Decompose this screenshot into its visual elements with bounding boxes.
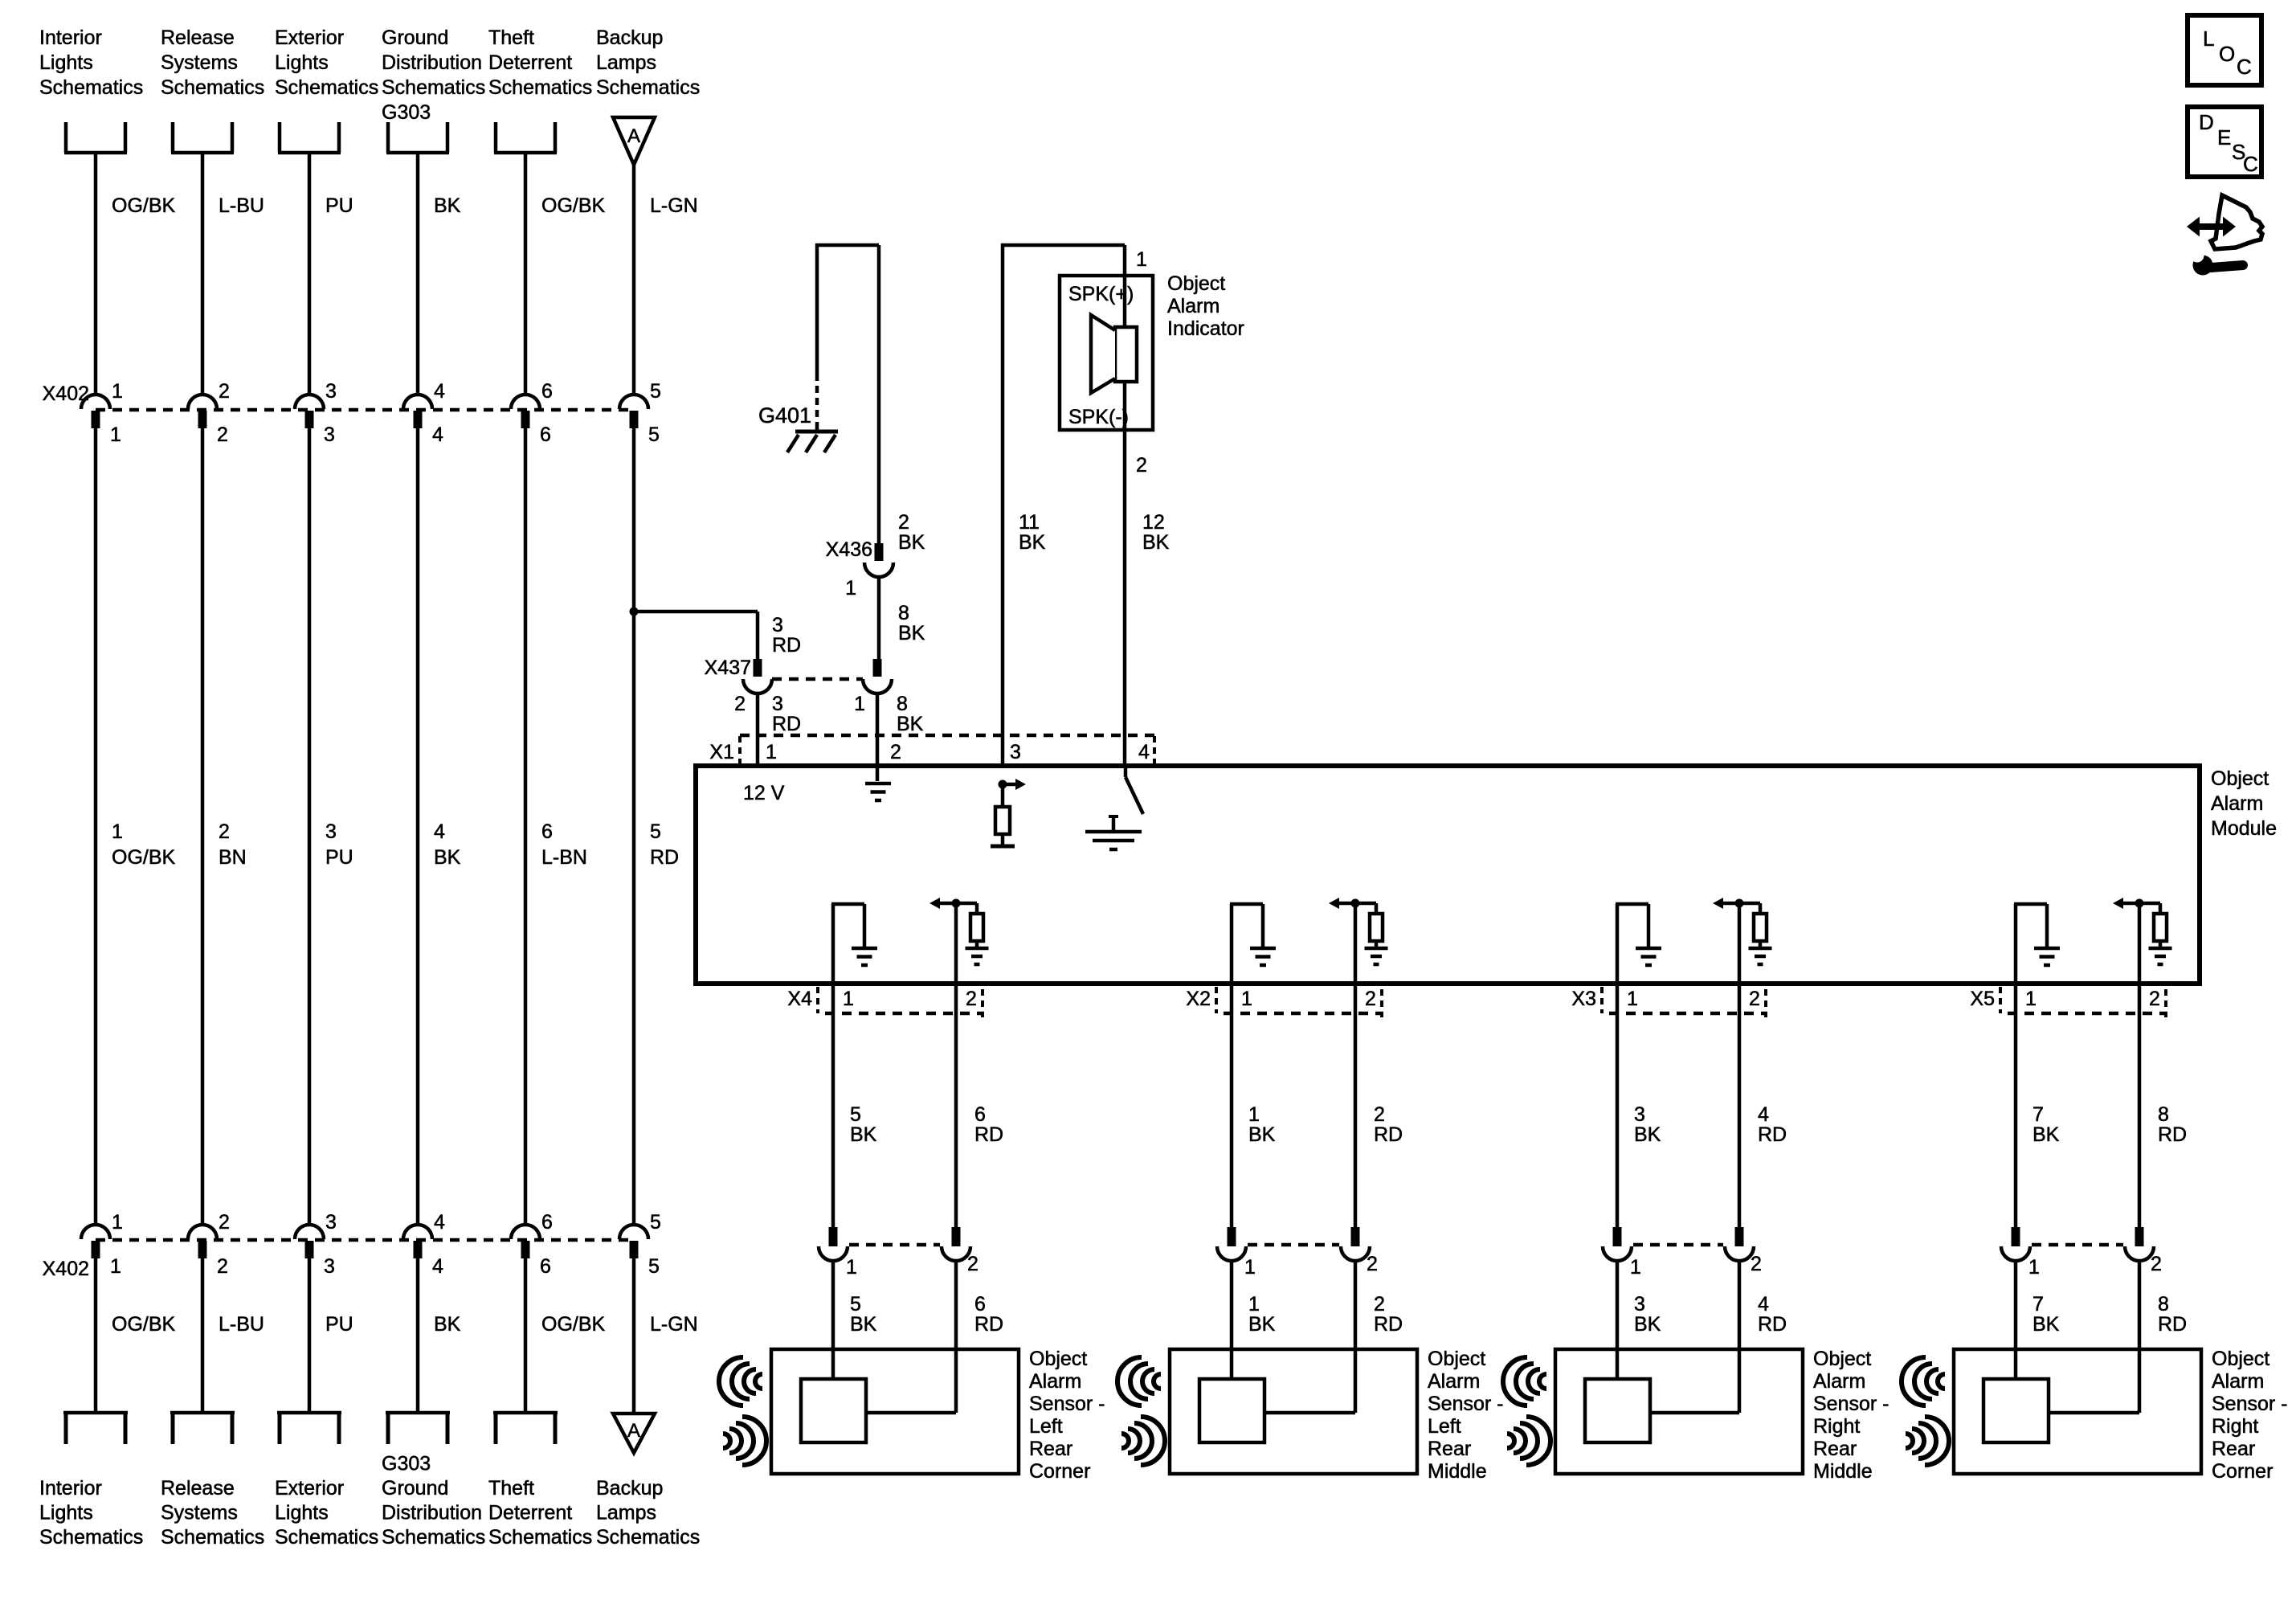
svg-text:1: 1 (1627, 988, 1638, 1010)
svg-text:Alarm: Alarm (2212, 1370, 2264, 1393)
svg-text:2: 2 (734, 693, 746, 715)
connector X5 dashed line (2008, 1012, 2167, 1016)
svg-text:L-BU: L-BU (219, 194, 264, 217)
wire col5 upper segment (524, 153, 528, 395)
module internal resistor for X4 pin 2 (975, 903, 979, 914)
svg-text:BK: BK (850, 1313, 877, 1336)
svg-text:BK: BK (897, 713, 924, 735)
svg-text:X436: X436 (826, 538, 872, 561)
connector X402 upper pin 2 (col2) (188, 395, 217, 409)
svg-text:6: 6 (540, 1255, 551, 1278)
inline connector X4 sensor side pin 1 (829, 1227, 838, 1246)
sensor internal wire (X2) (1264, 1411, 1355, 1415)
svg-text:Middle: Middle (1428, 1460, 1487, 1483)
svg-text:6: 6 (541, 380, 553, 403)
svg-text:SPK(-): SPK(-) (1068, 406, 1129, 428)
inline connector X4 dashed line (849, 1243, 940, 1247)
svg-text:1: 1 (1241, 988, 1252, 1010)
svg-text:Schematics: Schematics (596, 1526, 700, 1549)
sensor internal wire (X4) (866, 1411, 956, 1415)
wire 1 BK lower (X2) (1230, 1261, 1234, 1379)
connector X402 lower pin 4 (col4) (403, 1225, 432, 1239)
connector X402 (lower) dashed line (96, 1238, 634, 1242)
svg-text:Theft: Theft (488, 1477, 534, 1500)
wire col6 middle segment (632, 428, 636, 1226)
wire G401 dashed segment (815, 374, 819, 424)
svg-text:1: 1 (112, 820, 123, 843)
inline connector X3 sensor side pin 1 (1613, 1227, 1622, 1246)
svg-text:Schematics: Schematics (275, 1526, 378, 1549)
wire 1 BK upper (X2) (1230, 984, 1234, 1227)
svg-text:7: 7 (2032, 1293, 2044, 1315)
ultrasonic waves lower (X4) (723, 1417, 766, 1465)
svg-text:2: 2 (2151, 1253, 2162, 1275)
inline connector X3 sensor side pin 2 (1735, 1227, 1744, 1246)
sensor internal wire (X3) (1650, 1411, 1739, 1415)
svg-text:Object: Object (1428, 1348, 1485, 1370)
svg-text:X2: X2 (1186, 988, 1211, 1010)
inline connector X2 dashed line (1248, 1243, 1339, 1247)
svg-text:Distribution: Distribution (382, 51, 482, 74)
svg-text:6: 6 (974, 1103, 986, 1126)
module internal sense arrow for X2 pin 2 (1339, 902, 1376, 906)
svg-text:Deterrent: Deterrent (488, 51, 572, 74)
svg-text:2: 2 (1367, 1253, 1378, 1275)
svg-text:Alarm: Alarm (1813, 1370, 1865, 1393)
svg-text:Sensor -: Sensor - (1428, 1393, 1503, 1415)
connector X1 dashed line (740, 734, 1154, 738)
wire col3 upper segment (308, 153, 312, 395)
svg-text:OG/BK: OG/BK (112, 1313, 176, 1336)
svg-text:1: 1 (766, 741, 777, 763)
off-page connector top col1 (64, 122, 68, 153)
sensor element square (X3) (1585, 1379, 1650, 1442)
connector X2 left bracket (1215, 987, 1218, 1013)
svg-text:A: A (627, 125, 640, 147)
module internal sense arrow for X5 pin 2 (2123, 902, 2160, 906)
wire 4 RD upper (X3) (1738, 984, 1742, 1227)
svg-text:3: 3 (325, 820, 337, 843)
svg-text:Lights: Lights (275, 1502, 329, 1524)
connector X402 lower pin 2 (col2) (188, 1225, 217, 1239)
svg-text:Alarm: Alarm (1167, 295, 1219, 317)
wire 3 RD (X437 to module pin 1) (756, 694, 760, 766)
connector X402 upper pin 5 (col6) (619, 395, 648, 409)
svg-text:Sensor -: Sensor - (1029, 1393, 1105, 1415)
svg-text:Schematics: Schematics (275, 76, 378, 99)
connector X437 pin 2 (754, 659, 762, 677)
svg-text:5: 5 (648, 1255, 660, 1278)
svg-text:Rear: Rear (1029, 1438, 1072, 1460)
svg-text:Sensor -: Sensor - (1813, 1393, 1889, 1415)
off-page arrow A bottom col6 (613, 1414, 655, 1453)
svg-text:L: L (2203, 27, 2214, 51)
svg-text:3: 3 (324, 1255, 335, 1278)
svg-text:Rear: Rear (1813, 1438, 1857, 1460)
terminal bar (module pin 3 internal) (991, 845, 1015, 849)
svg-text:BK: BK (1634, 1313, 1661, 1336)
svg-text:RD: RD (650, 846, 679, 869)
svg-text:PU: PU (325, 846, 353, 869)
connector X3 left bracket (1600, 987, 1604, 1013)
svg-text:O: O (2219, 42, 2235, 66)
connector X4 left bracket (816, 987, 819, 1013)
off-page connector bottom col2 (171, 1412, 175, 1444)
svg-text:PU: PU (325, 1313, 353, 1336)
svg-text:2: 2 (1751, 1253, 1762, 1275)
connector X2 dashed line (1224, 1012, 1383, 1016)
wire 7 BK upper (X5) (2014, 984, 2018, 1227)
svg-text:OG/BK: OG/BK (541, 1313, 606, 1336)
svg-text:G303: G303 (382, 101, 431, 124)
svg-text:2: 2 (219, 1211, 230, 1234)
object alarm sensor box (Right Rear Corner) (1954, 1349, 2201, 1474)
svg-text:L-GN: L-GN (650, 1313, 698, 1336)
inline connector X5 sensor side pin 1 (2012, 1227, 2020, 1246)
svg-text:RD: RD (772, 634, 801, 657)
svg-text:11: 11 (1019, 511, 1040, 534)
connector X437 dashed line (772, 677, 863, 681)
svg-text:BK: BK (850, 1123, 877, 1146)
svg-text:Right: Right (1813, 1415, 1860, 1438)
wire col2 middle segment (201, 428, 205, 1226)
wire 11 BK (module pin 3 to indicator) (1001, 243, 1005, 766)
module internal sense arrow for X4 pin 2 (940, 902, 977, 906)
svg-text:Module: Module (2211, 817, 2277, 840)
svg-text:RD: RD (974, 1313, 1003, 1336)
wire 8 RD upper (X5) (2138, 984, 2142, 1227)
svg-text:4: 4 (434, 1211, 445, 1234)
svg-text:7: 7 (2032, 1103, 2044, 1126)
connector X4 right bracket (981, 989, 984, 1017)
wire col2 lower segment (201, 1258, 205, 1413)
wire 6 RD lower (X4) (954, 1261, 958, 1413)
connector X437 pin 1 (873, 659, 882, 677)
wire col1 middle segment (94, 428, 98, 1226)
connector X402 upper pin 4 (col4) (403, 395, 432, 409)
off-page connector bottom col3 (278, 1412, 282, 1444)
svg-text:Rear: Rear (1428, 1438, 1471, 1460)
inline connector X5 sensor side pin 2 (2135, 1227, 2144, 1246)
svg-text:2: 2 (1374, 1293, 1385, 1315)
wire col1 upper segment (94, 153, 98, 395)
ultrasonic waves lower (X2) (1121, 1417, 1165, 1465)
connector X4 dashed line (825, 1012, 984, 1016)
svg-text:Object: Object (2211, 767, 2269, 790)
svg-text:BK: BK (1248, 1313, 1276, 1336)
ultrasonic waves upper (X2) (1117, 1357, 1161, 1405)
svg-text:2: 2 (1374, 1103, 1385, 1126)
svg-text:6: 6 (974, 1293, 986, 1315)
wire 5 BK lower (X4) (831, 1261, 835, 1379)
svg-text:C: C (2243, 152, 2258, 176)
svg-text:2: 2 (1749, 988, 1760, 1010)
svg-text:1: 1 (112, 1211, 123, 1234)
wire col4 middle segment (416, 428, 420, 1226)
module internal ground for X3 pin 1 (1616, 904, 1620, 984)
connector X2 right bracket (1380, 989, 1383, 1017)
icon car silhouette (2211, 195, 2262, 249)
svg-text:Lights: Lights (275, 51, 329, 74)
svg-text:BK: BK (1142, 531, 1170, 554)
svg-text:Object: Object (2212, 1348, 2269, 1370)
wire 8 BK (X437 to module pin 2) (876, 694, 880, 781)
svg-text:2: 2 (219, 820, 230, 843)
svg-text:2: 2 (966, 988, 977, 1010)
wire 3 BK lower (X3) (1616, 1261, 1620, 1379)
svg-text:Right: Right (2212, 1415, 2258, 1438)
wire col3 middle segment (308, 428, 312, 1226)
svg-text:5: 5 (850, 1293, 861, 1315)
svg-text:Schematics: Schematics (161, 1526, 264, 1549)
wire 5 BK upper (X4) (831, 984, 835, 1227)
svg-text:1: 1 (854, 693, 865, 715)
svg-text:1: 1 (2028, 1256, 2040, 1279)
icon wrench (2211, 265, 2243, 268)
svg-text:Systems: Systems (161, 51, 238, 74)
svg-text:1: 1 (1136, 248, 1147, 271)
inline connector X2 sensor side pin 2 (1351, 1227, 1360, 1246)
wire 8 RD lower (X5) (2138, 1261, 2142, 1413)
svg-text:L-BU: L-BU (219, 1313, 264, 1336)
svg-text:Object: Object (1813, 1348, 1871, 1370)
svg-text:Schematics: Schematics (488, 76, 592, 99)
wire 6 RD upper (X4) (954, 984, 958, 1227)
wire 2 RD upper (X2) (1354, 984, 1358, 1227)
svg-text:6: 6 (541, 820, 553, 843)
module internal resistor for X3 pin 2 (1759, 903, 1763, 914)
wire col4 lower segment (416, 1258, 420, 1413)
svg-text:RD: RD (2158, 1123, 2187, 1146)
svg-text:PU: PU (325, 194, 353, 217)
switch (module pin 4 internal) (1124, 766, 1128, 777)
connector X1 left bracket (738, 736, 742, 766)
svg-text:Exterior: Exterior (275, 27, 344, 49)
svg-text:Corner: Corner (1029, 1460, 1090, 1483)
svg-text:BK: BK (898, 531, 925, 554)
svg-text:Lamps: Lamps (596, 1502, 656, 1524)
svg-text:1: 1 (2025, 988, 2037, 1010)
svg-text:4: 4 (1138, 741, 1150, 763)
module internal ground for X5 pin 1 (2014, 904, 2018, 984)
svg-text:BK: BK (434, 194, 461, 217)
svg-text:X1: X1 (709, 741, 734, 763)
wire col3 lower segment (308, 1258, 312, 1413)
off-page connector top col5 (494, 122, 498, 153)
svg-text:OG/BK: OG/BK (541, 194, 606, 217)
svg-text:X4: X4 (787, 988, 812, 1010)
inline connector X2 sensor side pin 1 (1228, 1227, 1236, 1246)
svg-text:3: 3 (325, 1211, 337, 1234)
svg-text:4: 4 (1758, 1103, 1769, 1126)
svg-text:1: 1 (1244, 1256, 1256, 1279)
off-page arrow A top col6 (613, 117, 655, 165)
svg-text:Sensor -: Sensor - (2212, 1393, 2287, 1415)
object alarm sensor box (Left Rear Corner) (771, 1349, 1019, 1474)
svg-text:Interior: Interior (39, 1477, 102, 1500)
svg-text:Schematics: Schematics (382, 1526, 485, 1549)
svg-text:RD: RD (1758, 1313, 1787, 1336)
svg-text:G303: G303 (382, 1453, 431, 1475)
wire col5 lower segment (524, 1258, 528, 1413)
connector X436 pin 1 (875, 543, 884, 561)
svg-text:Ground: Ground (382, 1477, 448, 1500)
module internal resistor for X5 pin 2 (2159, 903, 2163, 914)
svg-text:G401: G401 (758, 403, 811, 428)
off-page connector bottom col1 (64, 1412, 68, 1444)
connector X402 (upper) dashed line (96, 408, 634, 412)
speaker indicator box (1060, 276, 1153, 430)
off-page connector top col4 (386, 122, 390, 153)
svg-text:3: 3 (1010, 741, 1021, 763)
svg-text:3: 3 (324, 423, 335, 446)
svg-text:2: 2 (890, 741, 901, 763)
sensor element square (X5) (1983, 1379, 2049, 1442)
svg-text:Schematics: Schematics (161, 76, 264, 99)
svg-text:Object: Object (1167, 272, 1225, 295)
svg-text:2: 2 (217, 423, 228, 446)
ground (module pin 2 internal) (865, 782, 891, 786)
svg-text:Left: Left (1428, 1415, 1461, 1438)
off-page connector top col3 (278, 122, 282, 153)
svg-text:A: A (627, 1420, 640, 1442)
svg-text:Ground: Ground (382, 27, 448, 49)
svg-text:OG/BK: OG/BK (112, 846, 176, 869)
connector X3 right bracket (1764, 989, 1767, 1017)
svg-text:4: 4 (434, 380, 445, 403)
svg-text:RD: RD (1758, 1123, 1787, 1146)
wire 8 BK (X436 to X437) (877, 577, 881, 659)
svg-text:5: 5 (648, 423, 660, 446)
svg-text:2: 2 (967, 1253, 978, 1275)
wire col6 lower segment (632, 1258, 636, 1413)
wire col5 middle segment (524, 428, 528, 1226)
off-page connector top col2 (171, 122, 175, 153)
svg-text:X3: X3 (1571, 988, 1596, 1010)
connector X402 lower pin 5 (col6) (619, 1225, 648, 1239)
module internal ground for X2 pin 1 (1230, 904, 1234, 984)
svg-text:BK: BK (1248, 1123, 1276, 1146)
ultrasonic waves upper (X3) (1503, 1357, 1546, 1405)
wire col2 upper segment (201, 153, 205, 395)
svg-text:2: 2 (898, 511, 909, 534)
svg-text:Release: Release (161, 1477, 235, 1500)
svg-text:Lights: Lights (39, 1502, 93, 1524)
sensor internal wire (X5) (2049, 1411, 2139, 1415)
icon double arrow (2196, 223, 2225, 230)
junction on 5 RD wire (630, 608, 639, 616)
svg-text:BK: BK (898, 622, 925, 644)
svg-text:3: 3 (1634, 1293, 1645, 1315)
svg-text:RD: RD (1374, 1313, 1403, 1336)
svg-text:6: 6 (540, 423, 551, 446)
svg-text:4: 4 (432, 1255, 443, 1278)
connector X402 lower pin 1 (col1) (81, 1225, 110, 1239)
svg-text:OG/BK: OG/BK (112, 194, 176, 217)
svg-text:1: 1 (110, 423, 121, 446)
svg-text:1: 1 (110, 1255, 121, 1278)
svg-text:BK: BK (434, 1313, 461, 1336)
svg-text:1: 1 (112, 380, 123, 403)
svg-text:6: 6 (541, 1211, 553, 1234)
svg-text:1: 1 (843, 988, 854, 1010)
inline connector X4 sensor side pin 2 (952, 1227, 961, 1246)
ultrasonic waves lower (X5) (1906, 1417, 1949, 1465)
svg-text:1: 1 (845, 577, 856, 599)
module pin 3 internal: sense arrow (999, 780, 1007, 789)
svg-text:RD: RD (1374, 1123, 1403, 1146)
ultrasonic waves upper (X5) (1902, 1357, 1945, 1405)
svg-text:Release: Release (161, 27, 235, 49)
svg-text:Object: Object (1029, 1348, 1087, 1370)
svg-text:Lights: Lights (39, 51, 93, 74)
svg-text:Interior: Interior (39, 27, 102, 49)
connector X402 lower pin 6 (col5) (511, 1225, 540, 1239)
svg-text:BK: BK (2032, 1313, 2060, 1336)
svg-text:Backup: Backup (596, 27, 663, 49)
svg-text:Systems: Systems (161, 1502, 238, 1524)
svg-text:Schematics: Schematics (39, 1526, 143, 1549)
svg-text:2: 2 (1136, 454, 1147, 477)
svg-text:X5: X5 (1970, 988, 1995, 1010)
svg-text:1: 1 (846, 1256, 857, 1279)
svg-text:E: E (2217, 125, 2231, 149)
wire 7 BK lower (X5) (2014, 1261, 2018, 1379)
svg-text:3: 3 (325, 380, 337, 403)
svg-text:D: D (2199, 110, 2214, 134)
wire 3 RD (junction to X437) (632, 610, 758, 614)
icon DESC box (2188, 107, 2261, 177)
speaker symbol (1123, 276, 1127, 327)
module internal resistor for X2 pin 2 (1375, 903, 1379, 914)
svg-text:L-BN: L-BN (541, 846, 587, 869)
wire 2 BK (to X436) (877, 245, 881, 543)
connector X5 left bracket (1999, 987, 2002, 1013)
svg-text:Left: Left (1029, 1415, 1063, 1438)
svg-text:BK: BK (1019, 531, 1046, 554)
svg-text:Rear: Rear (2212, 1438, 2255, 1460)
svg-text:Alarm: Alarm (2211, 792, 2263, 815)
svg-text:Schematics: Schematics (596, 76, 700, 99)
svg-text:Lamps: Lamps (596, 51, 656, 74)
svg-text:BK: BK (2032, 1123, 2060, 1146)
svg-text:BN: BN (219, 846, 247, 869)
svg-text:5: 5 (650, 1211, 661, 1234)
svg-text:4: 4 (432, 423, 443, 446)
resistor (module pin 3 internal) (1001, 784, 1005, 807)
svg-text:Indicator: Indicator (1167, 317, 1244, 340)
svg-text:Schematics: Schematics (488, 1526, 592, 1549)
svg-text:Schematics: Schematics (39, 76, 143, 99)
ground G401 (earth) (815, 424, 819, 432)
module internal ground for X4 pin 1 (831, 904, 835, 984)
svg-text:1: 1 (1248, 1293, 1260, 1315)
wire 2 RD lower (X2) (1354, 1261, 1358, 1413)
svg-text:3: 3 (772, 614, 783, 636)
ultrasonic waves lower (X3) (1507, 1417, 1550, 1465)
wire 3 BK upper (X3) (1616, 984, 1620, 1227)
svg-text:1: 1 (1630, 1256, 1641, 1279)
sensor element square (X4) (801, 1379, 866, 1442)
svg-text:3: 3 (772, 693, 783, 715)
connector X402 upper pin 6 (col5) (511, 395, 540, 409)
module internal sense arrow for X3 pin 2 (1723, 902, 1760, 906)
svg-text:4: 4 (434, 820, 445, 843)
svg-text:5: 5 (850, 1103, 861, 1126)
svg-text:12 V: 12 V (743, 782, 785, 804)
svg-text:Deterrent: Deterrent (488, 1502, 572, 1524)
svg-text:BK: BK (1634, 1123, 1661, 1146)
